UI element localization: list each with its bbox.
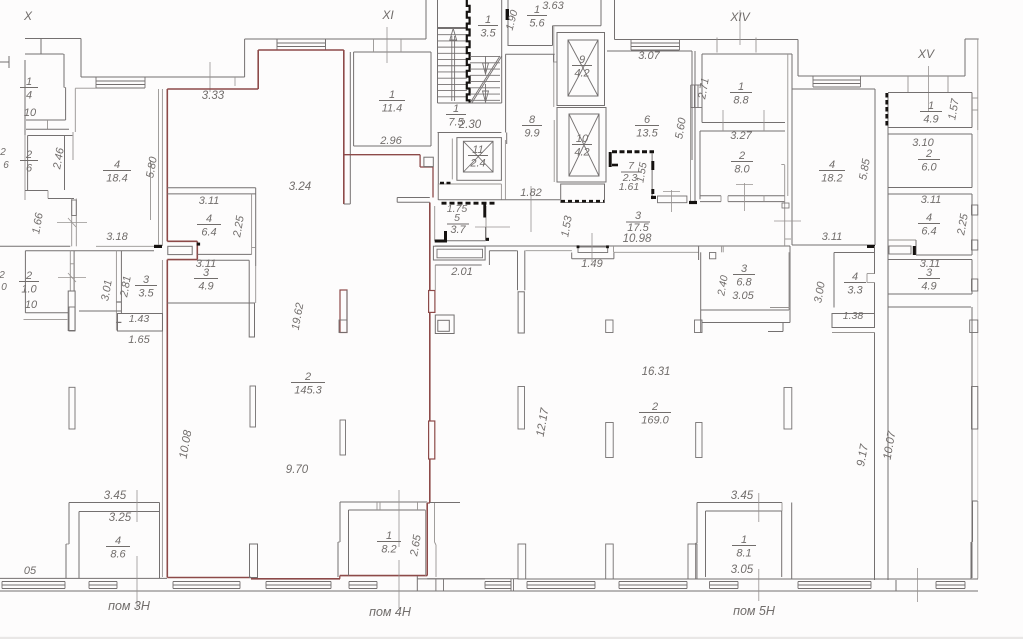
svg-text:2: 2	[25, 270, 32, 282]
room 3/4.9 right col	[888, 259, 972, 261]
svg-text:6.4: 6.4	[201, 227, 216, 239]
svg-text:8.6: 8.6	[110, 549, 126, 561]
black wall stub left of door	[154, 245, 162, 248]
window W4 top-right	[813, 75, 861, 77]
axis line x592 niche	[591, 233, 593, 262]
right flight treads	[470, 56, 500, 58]
pit below elevator 11	[438, 183, 501, 185]
axis crosses	[671, 190, 673, 212]
svg-text:2: 2	[738, 150, 745, 162]
columns room 169.0	[606, 320, 613, 333]
columns room 145.3	[250, 386, 256, 427]
stair top landing line	[438, 27, 468, 29]
jamb ticks top wall 8.2	[376, 502, 378, 510]
right bottom outer wall	[972, 501, 974, 542]
left rooms walls	[28, 135, 73, 137]
svg-text:1.82: 1.82	[520, 187, 541, 199]
black zigzag wall between flights	[467, 0, 470, 103]
room 6.4 bottom wall	[198, 253, 252, 255]
top pier x339-347	[339, 320, 347, 333]
room 8.0 walls	[699, 131, 701, 199]
svg-text:3.05: 3.05	[731, 564, 754, 576]
dim ticks 3.45/3.25	[136, 490, 138, 522]
room 1/4.9 right col	[888, 92, 972, 94]
svg-text:169.0: 169.0	[641, 415, 669, 427]
bottom wall piers	[518, 544, 526, 579]
red left wall lower	[161, 260, 163, 577]
svg-text:10.98: 10.98	[623, 233, 652, 245]
svg-text:18.4: 18.4	[106, 173, 127, 185]
elevator shaft 10	[557, 108, 606, 183]
top outer wall y39 to stair block	[245, 38, 426, 40]
svg-text:3.5: 3.5	[138, 288, 154, 300]
svg-text:10: 10	[576, 133, 589, 145]
svg-text:6: 6	[3, 160, 9, 171]
right of red: gray wall x434-436	[434, 503, 436, 542]
room 8.8 bottom / 8.0 top double	[702, 122, 785, 124]
bottom wall bottom line	[0, 590, 978, 592]
stair block outer walls	[425, 0, 427, 39]
black zigzag left wall of room 1/4.9	[885, 93, 888, 128]
room 1/11.4	[353, 52, 355, 146]
svg-text:1.0: 1.0	[21, 284, 37, 296]
red right boundary of room 8.2	[426, 503, 428, 576]
svg-text:1: 1	[485, 14, 491, 26]
door leaf rect	[168, 246, 192, 254]
windows right edge	[972, 205, 978, 215]
svg-text:2: 2	[651, 401, 658, 413]
pom3H axis	[136, 556, 138, 608]
svg-text:4: 4	[114, 159, 120, 171]
room 1/8.8	[701, 54, 703, 123]
svg-text:1: 1	[534, 4, 540, 16]
window W1 top-left	[96, 76, 145, 78]
XV axis	[928, 66, 930, 112]
svg-text:1: 1	[741, 534, 747, 546]
red top-right connection under room 11.4	[344, 154, 420, 156]
axis tick x=210	[209, 62, 211, 92]
elevator shaft 9	[557, 33, 605, 106]
room 8.1	[697, 502, 782, 504]
window bottom x527	[527, 581, 595, 583]
svg-text:1: 1	[389, 89, 395, 101]
svg-text:3.5: 3.5	[480, 28, 496, 40]
window bottom x936	[936, 581, 965, 583]
svg-text:5: 5	[454, 212, 460, 224]
niche 1.49	[578, 247, 608, 253]
corridor bottom long wall y246	[435, 245, 523, 247]
red door notch x167-197 y241-260	[167, 240, 197, 242]
crenellated black wall y202 x441-496	[442, 202, 497, 205]
svg-text:XIV: XIV	[729, 10, 750, 24]
room 3/3.5 walls (x116/121 pair)	[115, 251, 117, 331]
svg-text:3: 3	[635, 210, 642, 222]
room 4/6.4 left: top double wall	[167, 187, 255, 189]
svg-text:0: 0	[1, 282, 7, 293]
recessed wall below room 8.2 right part	[416, 576, 418, 591]
stair treads left flight	[438, 28, 467, 30]
window bottom x266	[266, 581, 331, 583]
room 18.2 left wall window marks	[782, 203, 789, 208]
svg-text:6.8: 6.8	[736, 277, 752, 289]
svg-text:2: 2	[25, 149, 32, 161]
svg-text:9.70: 9.70	[286, 464, 309, 476]
top wall y39.5 mid-right	[614, 0, 616, 40]
wall stub x249 y303-337	[249, 303, 254, 337]
window bottom x89	[89, 581, 117, 583]
top-right outer walls	[797, 40, 799, 77]
svg-text:3.11: 3.11	[921, 194, 942, 206]
stair bottom wall	[438, 102, 502, 104]
room 5.6 block	[508, 45, 553, 47]
stair lobby lower walls	[489, 250, 517, 252]
section X top-left walls	[25, 38, 81, 40]
svg-text:16.31: 16.31	[642, 366, 671, 378]
room 4/8.6	[69, 502, 160, 504]
svg-text:2: 2	[925, 148, 932, 160]
left wall below	[24, 251, 26, 313]
lobby top wall	[505, 53, 554, 55]
svg-text:6: 6	[26, 163, 33, 175]
faint band at image bottom	[0, 637, 1023, 639]
svg-text:3: 3	[926, 267, 933, 279]
svg-text:4: 4	[206, 213, 212, 225]
svg-text:4: 4	[926, 212, 932, 224]
svg-text:1: 1	[386, 530, 392, 542]
svg-text:18.2: 18.2	[821, 173, 842, 185]
svg-text:3.7: 3.7	[450, 224, 466, 236]
room 4/3.3	[833, 253, 835, 308]
wall y246 (3.18)	[0, 245, 70, 247]
svg-text:3: 3	[203, 267, 210, 279]
svg-text:X: X	[23, 9, 33, 23]
black corner x691-696	[689, 201, 697, 204]
left outer wall pier rects x69-75	[69, 307, 75, 331]
svg-text:XI: XI	[381, 8, 394, 22]
stair diagonal lines	[470, 56, 500, 103]
right outer wall x980	[977, 76, 979, 130]
axis line x531 (1.82)	[530, 186, 532, 232]
svg-text:3.07: 3.07	[638, 50, 660, 62]
red right wall upper (pillar x344)	[343, 50, 345, 204]
room 3/6.8	[700, 252, 702, 332]
window bottom x173	[173, 581, 240, 583]
svg-text:8.1: 8.1	[736, 548, 751, 560]
svg-text:4: 4	[115, 535, 121, 547]
axis right section	[917, 568, 919, 602]
svg-text:1: 1	[453, 103, 459, 115]
svg-text:пом 4Н: пом 4Н	[369, 605, 412, 619]
walls x790 below 18.2	[789, 246, 791, 323]
corridor top wall y199.6	[438, 199, 560, 201]
pom4H axis	[398, 490, 400, 547]
corridor right double wall x690/695	[690, 108, 692, 202]
red unit 4H boundary: top area	[167, 88, 258, 90]
room 13.5 inner top	[607, 50, 692, 52]
room 8.2 gray walls	[340, 501, 427, 503]
room 6.4 right wall double x251.6/255.7	[251, 194, 253, 255]
window bottom x349	[349, 581, 377, 583]
svg-text:6.0: 6.0	[921, 162, 937, 174]
door ticks room 8.0 bottom	[720, 196, 722, 202]
svg-text:6: 6	[644, 114, 651, 126]
svg-text:8.0: 8.0	[734, 164, 750, 176]
corridor-side face of 18.2 left wall	[784, 165, 786, 246]
svg-text:9.9: 9.9	[524, 128, 539, 140]
svg-text:3.45: 3.45	[731, 490, 754, 502]
window bottom x2	[2, 581, 65, 583]
svg-text:6.4: 6.4	[921, 226, 936, 238]
svg-text:3.18: 3.18	[106, 231, 128, 243]
svg-text:3.63: 3.63	[542, 0, 564, 12]
red right wall pillar y421-459	[429, 421, 435, 459]
svg-text:2.30: 2.30	[458, 119, 482, 131]
svg-text:8.2: 8.2	[381, 544, 396, 556]
XIV axis	[739, 10, 741, 45]
double wall x517/x525	[517, 251, 519, 291]
svg-text:05: 05	[24, 565, 37, 577]
svg-text:2.4: 2.4	[469, 158, 485, 170]
svg-text:10: 10	[25, 299, 38, 311]
1.38 box	[832, 314, 875, 328]
window sill rect below 3.7	[433, 246, 485, 260]
svg-text:3.27: 3.27	[730, 130, 752, 142]
svg-text:8.8: 8.8	[733, 95, 749, 107]
svg-text:1: 1	[928, 100, 934, 112]
elevator 11 block	[437, 133, 439, 200]
svg-text:3.11: 3.11	[199, 195, 220, 207]
window sill right of room 7	[658, 196, 687, 203]
room 4/6.4 right col	[888, 193, 972, 195]
svg-text:3.24: 3.24	[289, 181, 311, 193]
svg-text:3: 3	[741, 263, 748, 275]
down arrows right flight	[485, 56, 487, 72]
room 5/3.7 outline	[434, 206, 436, 241]
room 2/6.0	[888, 133, 972, 135]
double wall left of shaft 10	[553, 120, 555, 182]
svg-text:4: 4	[852, 271, 858, 283]
svg-text:2: 2	[304, 371, 311, 383]
svg-text:9: 9	[579, 54, 585, 66]
svg-text:11: 11	[472, 144, 483, 156]
window bottom x709.5	[710, 581, 739, 583]
dim line 1.66	[57, 222, 87, 224]
red bottom wall	[167, 577, 251, 579]
axis XI line	[386, 27, 388, 63]
svg-text:2: 2	[0, 147, 6, 158]
wall x72-76 with window	[71, 199, 73, 247]
svg-text:пом 3Н: пом 3Н	[108, 599, 151, 613]
svg-text:4.9: 4.9	[923, 114, 938, 126]
wall pair x70/74 with pier	[69, 251, 71, 291]
svg-text:3.25: 3.25	[109, 512, 132, 524]
svg-text:2.01: 2.01	[450, 266, 472, 278]
wall step down to y77	[230, 76, 245, 78]
room 4.9 bottom	[167, 302, 249, 304]
svg-text:3.05: 3.05	[732, 290, 754, 302]
svg-text:1.38: 1.38	[843, 310, 864, 322]
window W2 top-mid	[277, 38, 326, 40]
svg-text:4: 4	[829, 159, 835, 171]
red left wall x167 with gray face	[161, 89, 163, 246]
svg-text:145.3: 145.3	[294, 385, 322, 397]
svg-text:4.2: 4.2	[574, 68, 589, 80]
window bottom x798	[798, 581, 871, 583]
svg-text:1: 1	[26, 76, 32, 88]
dim tick 1.0	[58, 277, 86, 279]
window bottom x485	[485, 581, 511, 583]
1.43 box	[118, 314, 163, 332]
svg-text:3.45: 3.45	[104, 490, 127, 502]
left edge partial lines	[0, 61, 9, 63]
room 7/2.3 thick walls	[612, 150, 654, 153]
svg-text:3.3: 3.3	[847, 285, 863, 297]
black piece right wall	[506, 9, 509, 20]
double wall 9.17/10.07	[874, 333, 876, 581]
svg-text:3.11: 3.11	[822, 231, 843, 243]
top wall of left block	[81, 76, 245, 78]
svg-text:13.5: 13.5	[636, 128, 658, 140]
svg-text:1.43: 1.43	[129, 313, 150, 325]
svg-text:1: 1	[738, 81, 744, 93]
staple double wall y197/202 x397-430	[397, 197, 430, 199]
pom5H axis	[758, 493, 760, 522]
corridor corner column box	[435, 315, 454, 334]
svg-text:1.49: 1.49	[581, 258, 602, 270]
svg-text:XV: XV	[917, 47, 935, 61]
window bottom x619	[619, 581, 687, 583]
window W3	[631, 39, 680, 41]
next room top y308	[888, 306, 971, 308]
room 4/18.2	[791, 89, 793, 245]
bottom wall top line	[0, 577, 167, 579]
wall pier x339-347 y290-332 gray part / top of big room	[346, 290, 348, 333]
svg-text:8: 8	[529, 114, 536, 126]
svg-text:10: 10	[24, 107, 37, 119]
dim line for 3.7	[475, 226, 510, 228]
svg-text:4.9: 4.9	[198, 281, 213, 293]
svg-text:2.96: 2.96	[379, 135, 402, 147]
elevator pit below	[561, 184, 605, 203]
wall x150 room 18.4 right	[150, 160, 152, 220]
red right wall pillar y290-312	[429, 291, 435, 313]
stair up arrow	[451, 36, 453, 101]
small box at corridor corner (424,157)	[424, 157, 433, 166]
jamb ticks on y246 wall	[613, 246, 615, 252]
svg-text:3: 3	[143, 274, 150, 286]
svg-text:11.4: 11.4	[382, 103, 403, 115]
pier x249-257 under big room	[250, 544, 258, 578]
svg-text:4: 4	[26, 90, 32, 102]
svg-text:2: 2	[0, 270, 5, 281]
svg-text:4.2: 4.2	[574, 147, 589, 159]
niche bottom-left of 6.4R	[888, 239, 916, 241]
window 8.8 left	[691, 84, 702, 86]
room 3/4.9 left: top/right	[197, 259, 249, 261]
svg-text:1.65: 1.65	[128, 334, 150, 346]
svg-text:3.33: 3.33	[202, 90, 225, 102]
red pillar piece x344 y290-332	[340, 290, 347, 333]
line y322 below 6.8	[702, 322, 790, 324]
svg-text:пом 5Н: пом 5Н	[733, 604, 776, 618]
svg-text:5.6: 5.6	[529, 18, 545, 30]
svg-text:4.9: 4.9	[921, 281, 936, 293]
